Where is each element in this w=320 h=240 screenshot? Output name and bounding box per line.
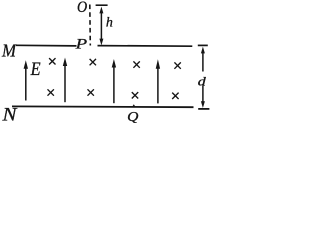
up arrow 3 bbox=[112, 59, 116, 103]
up arrow 2 bbox=[63, 58, 67, 103]
field cross row2 col1 bbox=[48, 89, 54, 95]
tick at bottom of d dimension bbox=[198, 108, 209, 110]
svg-text:O: O bbox=[77, 0, 87, 16]
plate N line bbox=[12, 105, 194, 108]
field cross row1 col2 bbox=[90, 59, 96, 65]
field cross row1 col4 bbox=[174, 62, 180, 68]
svg-text:h: h bbox=[106, 16, 113, 31]
svg-text:E: E bbox=[30, 60, 41, 80]
plate M line left segment bbox=[16, 44, 77, 47]
svg-text:P: P bbox=[74, 37, 87, 53]
up arrow 4 bbox=[156, 59, 160, 103]
svg-text:N: N bbox=[1, 105, 18, 123]
field cross row2 col4 bbox=[172, 93, 178, 99]
field cross row1 col3 bbox=[133, 61, 139, 67]
field cross row1 col1 bbox=[49, 58, 55, 64]
dashed line from O down to P bbox=[89, 5, 92, 46]
dimension arrow h (double headed vertical) bbox=[99, 7, 103, 46]
svg-text:M: M bbox=[1, 41, 17, 61]
field cross row2 col2 bbox=[88, 89, 94, 95]
tick marking point Q on plate N bbox=[132, 104, 136, 107]
svg-text:d: d bbox=[198, 74, 207, 88]
field cross row2 col3 bbox=[132, 92, 138, 98]
svg-text:Q: Q bbox=[127, 110, 138, 123]
plate M line right segment bbox=[98, 45, 193, 48]
tick at top of h dimension bbox=[96, 4, 108, 6]
field arrow E (leftmost up arrow) bbox=[24, 60, 28, 100]
tick at top of d dimension bbox=[198, 44, 208, 46]
dimension arrow d (double headed vertical) bbox=[201, 47, 205, 108]
